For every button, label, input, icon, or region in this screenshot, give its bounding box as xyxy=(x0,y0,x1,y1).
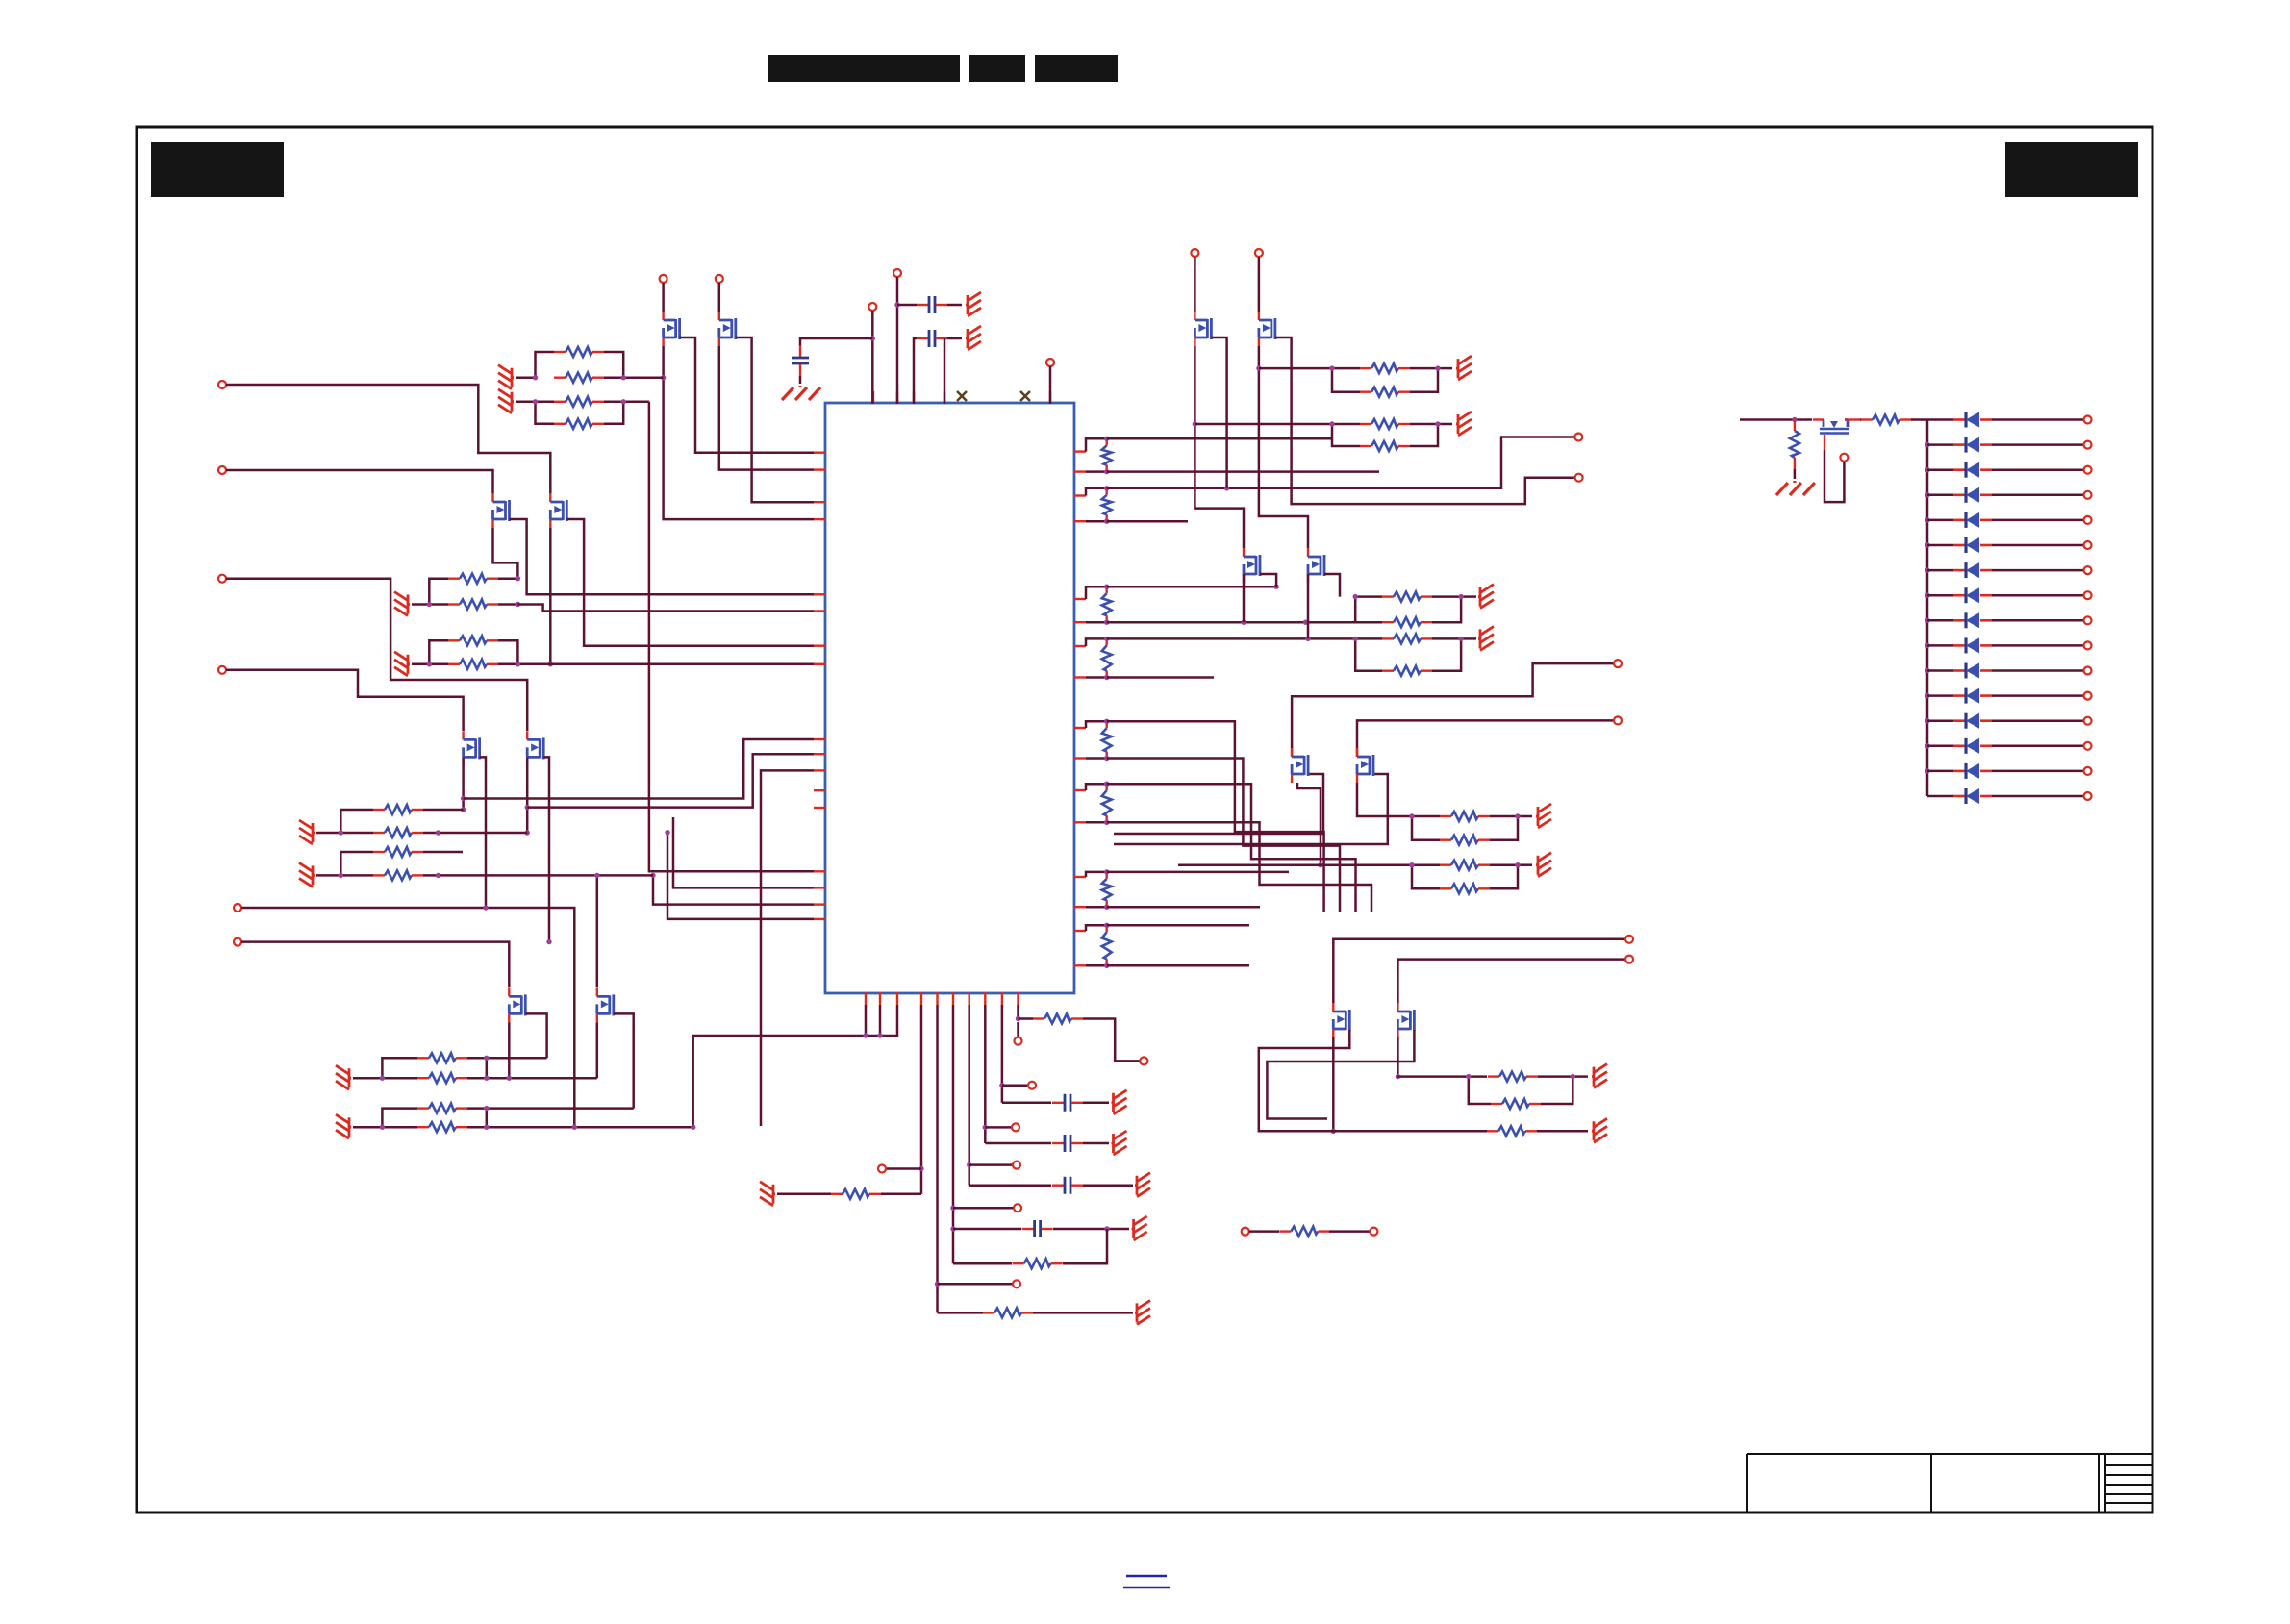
ground xyxy=(1135,1300,1150,1324)
terminal VQ7 xyxy=(1191,249,1198,257)
IC U1 main controller xyxy=(825,403,1074,993)
terminal JD15 xyxy=(2084,767,2092,775)
wire xyxy=(1927,694,1953,697)
junction xyxy=(1792,417,1797,422)
junction xyxy=(1925,517,1929,522)
wire xyxy=(1992,745,2083,748)
resistor R3 xyxy=(554,397,604,407)
resistor R36 xyxy=(1382,634,1432,643)
resistor R33 xyxy=(373,870,423,880)
wire G4t to RN15 xyxy=(1107,637,1356,640)
wire G3b to RN14 xyxy=(1107,621,1356,624)
ground xyxy=(1478,626,1494,650)
terminal JD3 xyxy=(2084,466,2092,474)
terminal TP7 xyxy=(1013,1162,1020,1169)
wire bus xyxy=(1926,420,1929,797)
transistor Q12 xyxy=(1397,1003,1414,1037)
wire Q7 gate xyxy=(1211,337,1226,488)
wire Q8 gate to J8 xyxy=(1275,337,1575,504)
wire G3t xyxy=(1107,586,1276,588)
wire xyxy=(1794,469,1797,479)
wire G5b staircase xyxy=(1107,759,1340,912)
wire Q11 source xyxy=(1332,1037,1335,1131)
resistor R13 xyxy=(1360,387,1410,397)
wire Q8b gate xyxy=(543,757,549,941)
diode D10 xyxy=(1953,637,1992,653)
wire xyxy=(1258,257,1261,312)
wire J4 to Q7b drain xyxy=(226,670,464,731)
wire Q7 source to Q7c xyxy=(1195,346,1244,548)
junction xyxy=(1925,643,1929,648)
wire G4b xyxy=(1107,676,1214,679)
diode D5 xyxy=(1953,512,1992,528)
wire bus xyxy=(693,1005,897,1127)
ground xyxy=(336,1114,351,1138)
junction xyxy=(661,375,666,380)
wire J10 to Q10 drain xyxy=(1357,720,1614,757)
wire xyxy=(1927,745,1953,748)
resistor R34 xyxy=(1382,592,1432,602)
wire xyxy=(800,338,872,346)
wire Q10 gate to U1 xyxy=(1114,774,1388,844)
junction xyxy=(1925,743,1929,748)
wire Q1 gate to U1 xyxy=(680,337,814,453)
terminal JD12 xyxy=(2084,692,2092,700)
resistor RG6 xyxy=(1086,784,1107,790)
wire Q13 source xyxy=(1824,450,1844,502)
terminal xyxy=(716,275,723,283)
terminal JD10 xyxy=(2084,641,2092,649)
wire G5t staircase xyxy=(1107,721,1324,912)
resistor R16 xyxy=(1440,812,1490,821)
ground xyxy=(1536,853,1551,877)
resistor pair RN12 xyxy=(340,810,373,833)
wire xyxy=(1927,795,1953,798)
resistor pair RN4 xyxy=(429,640,448,664)
wire xyxy=(938,1283,1014,1286)
wire xyxy=(1927,619,1953,622)
resistor pair RN9 xyxy=(1412,815,1440,818)
wire xyxy=(914,338,917,404)
redacted footer links xyxy=(1123,1576,1170,1587)
wire xyxy=(953,1207,1014,1210)
capacitor C2 xyxy=(917,296,947,313)
ground xyxy=(299,862,315,887)
wire RN2 out to U1 xyxy=(649,402,814,872)
terminal J7 xyxy=(1574,434,1582,441)
wire xyxy=(1083,1019,1140,1062)
terminal TP4 xyxy=(878,1165,886,1173)
terminal TP10 xyxy=(1140,1057,1147,1064)
resistor R35 xyxy=(1382,617,1432,627)
capacitor C5 xyxy=(1052,1177,1083,1194)
resistor pair RN13 xyxy=(340,852,373,875)
resistor R17 xyxy=(1440,836,1490,845)
wire Q7b source xyxy=(462,757,465,810)
wire xyxy=(1002,1084,1028,1087)
junction xyxy=(1925,467,1929,472)
wire Q8b source xyxy=(526,757,529,833)
transistor Q6 xyxy=(597,987,614,1022)
resistor R20 xyxy=(1488,1072,1538,1082)
transistor Q7b xyxy=(464,731,480,765)
junction xyxy=(1925,542,1929,547)
wire Q4 gate to U1 xyxy=(566,519,814,646)
resistor R2 xyxy=(554,373,604,383)
wire G7b xyxy=(1107,906,1260,909)
terminal TP1 xyxy=(868,303,876,311)
resistor R38 xyxy=(1487,1126,1537,1136)
wire Q9 gate to U1 xyxy=(1114,774,1323,834)
resistor R19 xyxy=(1440,884,1490,893)
terminal xyxy=(660,275,667,283)
wire xyxy=(1992,694,2083,697)
diode D12 xyxy=(1953,688,1992,704)
junction xyxy=(1925,618,1929,623)
terminal J11 xyxy=(1625,936,1633,943)
wire xyxy=(487,1057,547,1060)
wire to RN7 xyxy=(1259,367,1332,370)
resistor R8 xyxy=(448,660,498,669)
wire RN13 to U1 xyxy=(653,875,814,904)
resistor R28 xyxy=(1861,415,1911,425)
resistor pair RN8 xyxy=(1332,423,1360,426)
junction xyxy=(1925,492,1929,497)
wire J3 to Q8b drain xyxy=(226,579,527,731)
wire Q6 source xyxy=(596,1022,599,1078)
wire Q1 source to U1 xyxy=(664,346,814,519)
terminal TP14 xyxy=(1840,454,1848,462)
resistor R10 xyxy=(417,1073,467,1083)
wire xyxy=(1308,1130,1487,1133)
transistor Q13 xyxy=(1813,418,1824,420)
wire G8t xyxy=(1107,924,1249,927)
ground xyxy=(1132,1216,1147,1240)
transistor Q3 xyxy=(493,493,510,528)
terminal JD1 xyxy=(2084,416,2092,424)
capacitor C6 xyxy=(1052,1135,1083,1152)
wire xyxy=(1194,257,1196,312)
resistor R18 xyxy=(1440,861,1490,870)
ground xyxy=(1135,1173,1150,1197)
terminal JD2 xyxy=(2084,441,2092,449)
resistor R11 xyxy=(417,1104,467,1113)
wire Q7c source xyxy=(1243,574,1246,622)
terminal J3 xyxy=(218,575,226,583)
resistor pair RN5 xyxy=(382,1058,417,1078)
wire xyxy=(1927,418,1953,421)
wire xyxy=(1063,1229,1107,1263)
capacitor C3 xyxy=(917,330,947,347)
ground xyxy=(1112,1090,1127,1114)
wire xyxy=(984,1005,987,1143)
resistor R4 xyxy=(554,419,604,429)
wire xyxy=(1927,494,1953,497)
transistor Q8b xyxy=(527,731,543,765)
wire xyxy=(1992,443,2083,446)
junction xyxy=(1925,567,1929,572)
wire xyxy=(985,1126,1012,1129)
wire xyxy=(1927,569,1953,572)
transistor Q4 xyxy=(550,493,566,528)
wire xyxy=(1049,366,1052,404)
ground xyxy=(498,365,514,389)
resistor R1 xyxy=(554,347,604,357)
wire Q2 gate to U1 xyxy=(736,337,814,502)
wire xyxy=(1860,418,1861,421)
wire xyxy=(952,1005,955,1263)
resistor R26 xyxy=(1279,1227,1329,1237)
wire xyxy=(1001,1005,1004,1103)
diode D3 xyxy=(1953,462,1992,478)
wire xyxy=(1992,519,2083,522)
IC top pin stubs xyxy=(872,391,874,404)
wire xyxy=(1927,644,1953,647)
wire xyxy=(604,401,649,404)
wire Q7c gate xyxy=(1260,574,1276,587)
wire xyxy=(1992,795,2083,798)
junction xyxy=(1925,768,1929,773)
wire xyxy=(1992,494,2083,497)
wire Q11 gate xyxy=(1259,1030,1350,1131)
resistor pair RN15 xyxy=(1355,637,1382,640)
wire xyxy=(871,311,874,404)
wire Q12 source xyxy=(1397,1037,1399,1077)
resistor R30 xyxy=(373,805,423,814)
terminal JD8 xyxy=(2084,591,2092,599)
wire xyxy=(662,283,665,312)
junction xyxy=(1273,585,1278,589)
wire Q6 gate xyxy=(614,1013,634,1108)
diode D9 xyxy=(1953,612,1992,628)
ground xyxy=(394,652,410,676)
resistor R23 xyxy=(983,1308,1033,1317)
ground xyxy=(760,1182,775,1206)
transistor Q10 xyxy=(1357,748,1373,783)
transistor Q11 xyxy=(1333,1003,1349,1037)
wire RN13 to Q6 drain xyxy=(596,875,599,987)
wire J1 to Q4 drain xyxy=(226,385,550,493)
no-connect mark xyxy=(957,391,967,401)
wire xyxy=(1927,519,1953,522)
ground xyxy=(1456,412,1472,436)
ground xyxy=(1592,1064,1607,1088)
resistor R9 xyxy=(417,1053,467,1062)
terminal TP13 xyxy=(1370,1228,1377,1236)
terminal JD7 xyxy=(2084,566,2092,574)
terminal J2 xyxy=(218,466,226,474)
transistor Q2 xyxy=(719,312,736,346)
ground xyxy=(1456,356,1472,380)
wire U1 elbow xyxy=(761,770,814,1126)
wire Q3 gate to U1 xyxy=(510,519,815,594)
terminal TP2 xyxy=(893,269,901,277)
terminal VQ8 xyxy=(1255,249,1263,257)
wire RN3 out to U1 xyxy=(517,605,814,612)
resistor RG2 xyxy=(1086,488,1107,496)
resistor R31 xyxy=(373,828,423,837)
resistor R21 xyxy=(1491,1099,1541,1109)
wire xyxy=(879,1005,882,1036)
wire xyxy=(1927,468,1953,471)
junction xyxy=(1925,718,1929,723)
terminal JD16 xyxy=(2084,792,2092,800)
ground xyxy=(1112,1131,1127,1155)
ground xyxy=(1776,481,1815,495)
resistor R24 xyxy=(1013,1259,1063,1268)
diode D8 xyxy=(1953,587,1992,603)
diode D2 xyxy=(1953,437,1992,453)
IC left pin stubs xyxy=(814,452,826,454)
wire Q10 source xyxy=(1357,783,1412,816)
transistor Q5 xyxy=(509,987,525,1022)
capacitor C7 xyxy=(1052,1094,1083,1112)
wire xyxy=(1927,443,1953,446)
wire to RN8 xyxy=(1195,423,1332,426)
wire xyxy=(1992,418,2083,421)
wire Q8c gate xyxy=(1324,574,1340,597)
resistor pair RN3 xyxy=(429,579,448,605)
wire J9 to Q9 drain xyxy=(1292,663,1614,757)
redacted header text blocks xyxy=(768,55,960,82)
terminal J10 xyxy=(1614,716,1622,724)
wire Q12 gate xyxy=(1267,1030,1414,1119)
wire Q5 source xyxy=(508,1022,511,1078)
no-connect mark xyxy=(1020,391,1030,401)
terminal TP12 xyxy=(1242,1228,1249,1236)
wire G6b staircase xyxy=(1107,822,1371,912)
resistor pair RN14 xyxy=(1355,595,1382,598)
wire Q4 source xyxy=(549,528,552,664)
wire xyxy=(604,376,664,379)
wire RN4 out to U1 xyxy=(498,663,814,666)
diode D15 xyxy=(1953,763,1992,779)
junction xyxy=(1925,668,1929,673)
wire xyxy=(944,338,946,404)
diode D1 xyxy=(1953,412,1992,428)
wire xyxy=(467,1126,693,1129)
wire Q8c source xyxy=(1307,574,1310,638)
resistor R12 xyxy=(1360,363,1410,373)
terminal TP11 xyxy=(1015,1037,1022,1045)
resistor R14 xyxy=(1360,419,1410,429)
junction xyxy=(894,302,899,307)
terminal J6 xyxy=(234,938,241,946)
resistor RG4 xyxy=(1086,638,1107,646)
resistor R15 xyxy=(1360,441,1410,451)
diode D11 xyxy=(1953,663,1992,679)
wire xyxy=(1911,418,1927,421)
wire xyxy=(1927,669,1953,672)
terminal TP6 xyxy=(1014,1204,1021,1212)
wire Q9 source xyxy=(1297,783,1321,865)
capacitor C4 xyxy=(1022,1220,1053,1237)
resistor R32 xyxy=(373,847,423,857)
wire G6t staircase xyxy=(1107,784,1356,912)
wire G7t xyxy=(1107,871,1289,874)
resistor R25 xyxy=(1033,1014,1083,1024)
wire xyxy=(896,277,899,404)
wire xyxy=(865,1005,868,1036)
wire xyxy=(1992,594,2083,597)
junction xyxy=(1925,593,1929,598)
resistor RG8 xyxy=(1086,925,1107,931)
wire xyxy=(423,874,653,877)
diode D6 xyxy=(1953,537,1992,553)
terminal J12 xyxy=(1625,956,1633,963)
ground xyxy=(1536,804,1551,828)
wire xyxy=(886,1167,921,1170)
wire xyxy=(1992,468,2083,471)
diode D7 xyxy=(1953,562,1992,578)
wire J2 to Q3 drain xyxy=(226,470,493,493)
wire Q8 source to Q8c xyxy=(1259,346,1308,548)
transistor Q7c xyxy=(1244,548,1260,583)
resistor R22 xyxy=(831,1189,881,1199)
terminal JD11 xyxy=(2084,667,2092,675)
wire J11 to Q11 drain xyxy=(1333,939,1625,1003)
IC right pin stubs xyxy=(1073,450,1086,452)
wire J6 to Q5 drain xyxy=(241,942,509,987)
capacitor C1 xyxy=(792,345,809,376)
wire xyxy=(1992,544,2083,547)
wire xyxy=(969,1163,1013,1166)
terminal J5 xyxy=(234,904,241,912)
wire xyxy=(1927,594,1953,597)
resistor R6 xyxy=(448,600,498,610)
wire xyxy=(1178,863,1440,866)
wire Q2 source to U1 xyxy=(719,346,814,470)
wire xyxy=(423,832,527,835)
IC bottom pin stubs xyxy=(865,992,867,1005)
wire xyxy=(1927,544,1953,547)
terminal JD6 xyxy=(2084,541,2092,549)
resistor RG7 xyxy=(1086,872,1107,877)
ground xyxy=(394,592,410,616)
wire J12 to Q12 drain xyxy=(1397,960,1625,1003)
resistor R12 xyxy=(417,1122,467,1132)
wire xyxy=(1992,669,2083,672)
ground xyxy=(782,386,820,400)
ground xyxy=(498,389,514,413)
junction xyxy=(870,336,875,340)
terminal J8 xyxy=(1575,474,1583,482)
wire xyxy=(1927,719,1953,722)
terminal J9 xyxy=(1614,660,1622,667)
terminal J4 xyxy=(218,666,226,674)
wire G1b xyxy=(1107,470,1379,473)
sheet border frame xyxy=(137,127,2152,1512)
wire xyxy=(1927,770,1953,773)
wire xyxy=(487,1107,634,1110)
diode D4 xyxy=(1953,487,1992,503)
wire xyxy=(1017,1022,1019,1037)
resistor R7 xyxy=(448,636,498,645)
transistor Q8 xyxy=(1259,312,1275,346)
junction xyxy=(1224,486,1229,490)
ground xyxy=(966,292,981,316)
ground xyxy=(299,820,315,844)
resistor pair RN6 xyxy=(382,1109,417,1128)
wire xyxy=(1017,1005,1019,1019)
resistor RG5 xyxy=(1086,721,1107,728)
wire Q5 gate xyxy=(525,1013,546,1058)
ground xyxy=(1592,1118,1607,1142)
wire Q8b to U1 xyxy=(527,754,814,807)
wire G8b xyxy=(1107,964,1249,967)
terminal J1 xyxy=(218,381,226,388)
wire to U1 xyxy=(667,833,814,919)
